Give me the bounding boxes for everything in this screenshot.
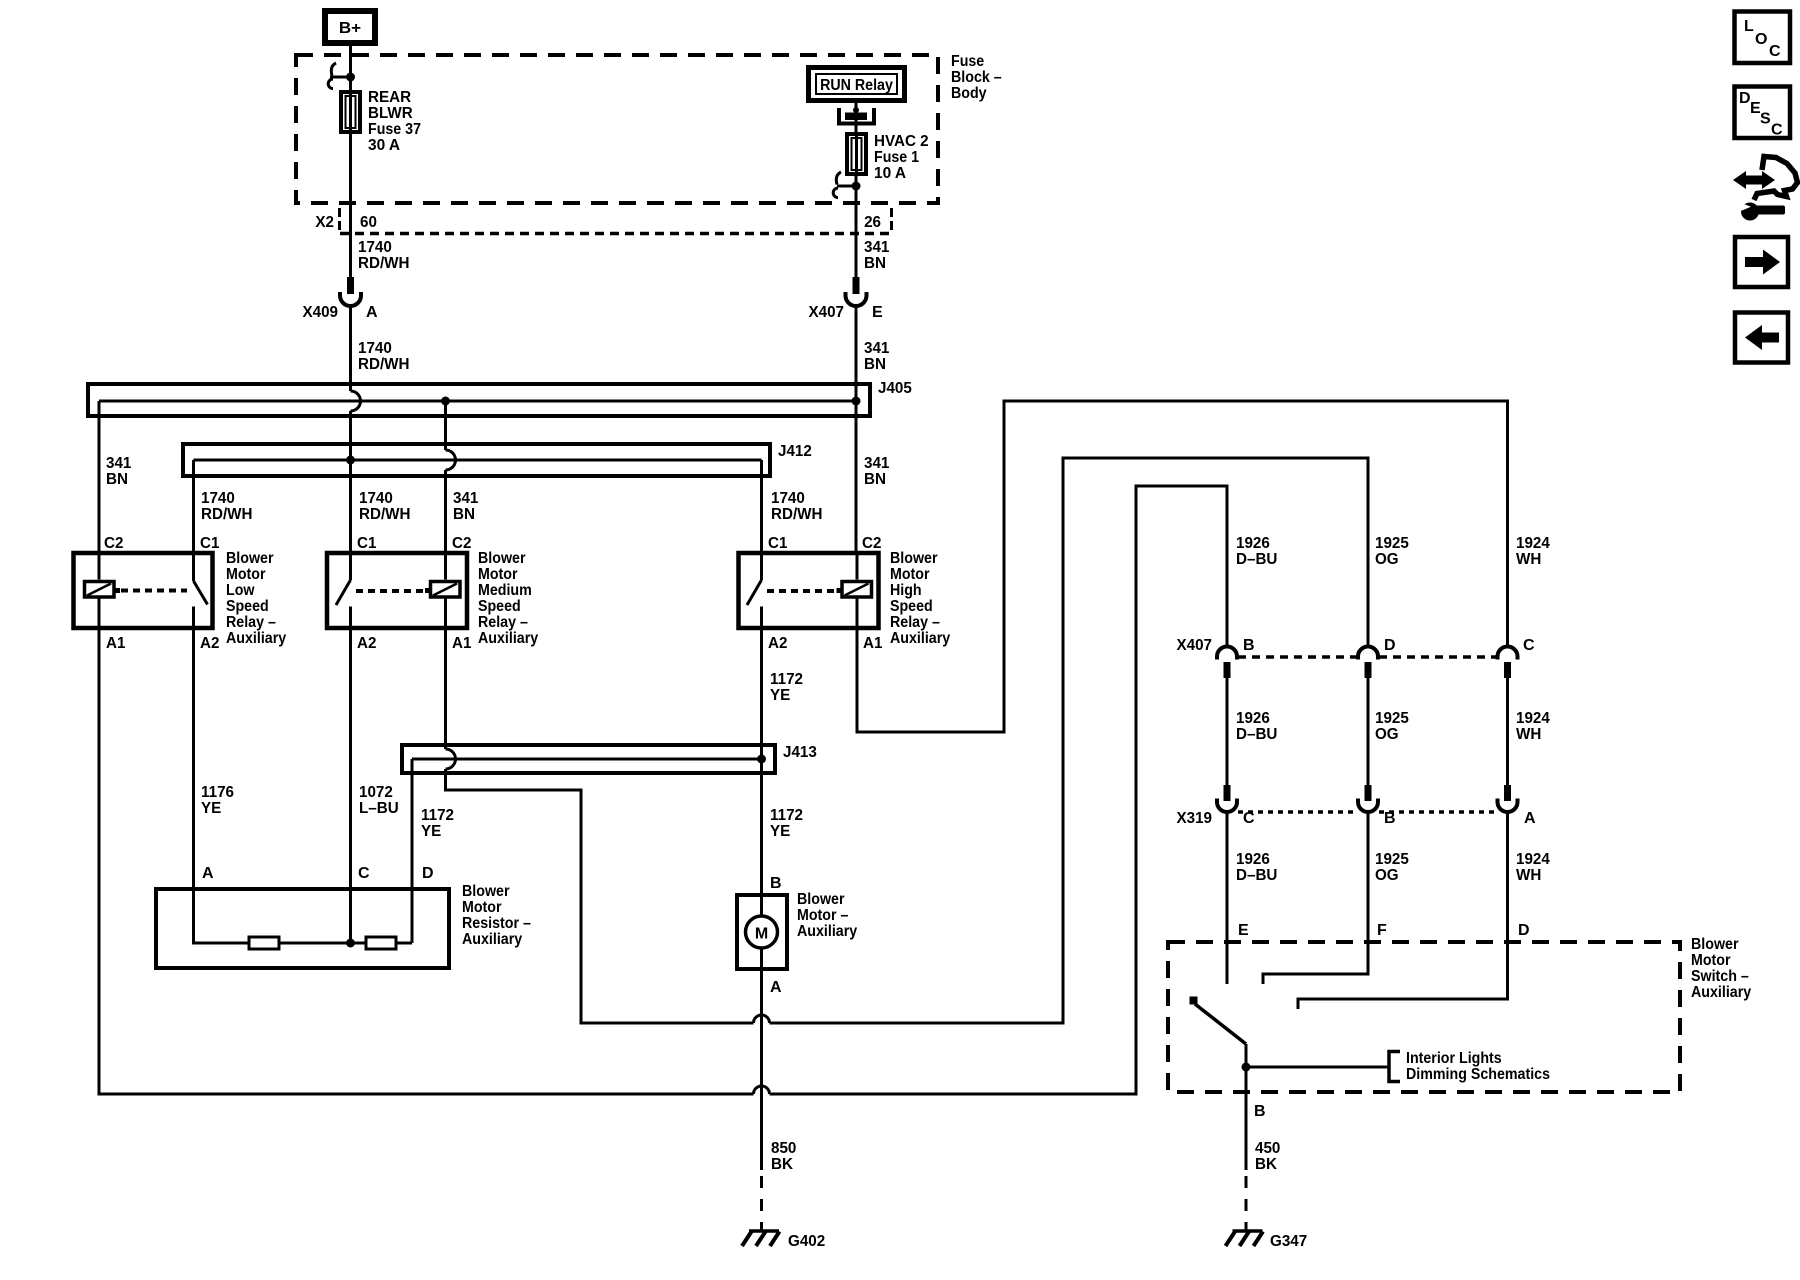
relay K3 Blower Motor High Speed Relay - Auxiliary — [739, 550, 951, 652]
wire X407-C to X319-A (1924 WH) — [1508, 678, 1550, 785]
switch wiper — [1190, 997, 1251, 1093]
wire X319-B to switch pin F (1925 OG) — [1263, 812, 1409, 984]
svg-text:1172: 1172 — [770, 807, 803, 824]
svg-text:BLWR: BLWR — [368, 105, 413, 122]
battery B+ symbol — [325, 11, 375, 43]
svg-text:RD/WH: RD/WH — [358, 255, 410, 272]
svg-text:1740: 1740 — [359, 490, 393, 507]
svg-text:Speed: Speed — [226, 598, 269, 615]
svg-text:341: 341 — [864, 455, 889, 472]
svg-text:A: A — [366, 304, 378, 321]
svg-text:Low: Low — [226, 582, 255, 599]
svg-text:341: 341 — [106, 455, 131, 472]
svg-text:1072: 1072 — [359, 784, 393, 801]
fuse F1 HVAC 2 10A — [847, 133, 929, 182]
svg-text:A2: A2 — [357, 635, 376, 652]
svg-text:Blower: Blower — [1691, 936, 1739, 953]
svg-text:A: A — [202, 865, 214, 882]
wire label 1926 D-BU (above X407) — [1236, 535, 1277, 568]
svg-text:1926: 1926 — [1236, 710, 1270, 727]
svg-text:Motor: Motor — [1691, 952, 1731, 969]
svg-text:A: A — [1524, 810, 1536, 827]
blower motor switch dashed box — [1168, 936, 1751, 1092]
svg-text:X2: X2 — [315, 214, 334, 231]
connector X409 pin A — [303, 277, 379, 321]
wire label 1740 RD/WH (below X409) — [358, 340, 410, 373]
wire J413 to resistor pin D (1172 YE) — [412, 759, 454, 943]
connector X2 pin 60 boundary — [315, 208, 892, 234]
connector X319 dotted gang lines — [1238, 810, 1496, 814]
svg-text:BN: BN — [864, 471, 886, 488]
svg-text:X409: X409 — [303, 304, 339, 321]
svg-text:Blower: Blower — [462, 883, 510, 900]
svg-text:B: B — [1243, 637, 1255, 654]
svg-text:X407: X407 — [1177, 637, 1213, 654]
svg-text:RD/WH: RD/WH — [201, 506, 253, 523]
svg-text:C2: C2 — [452, 535, 471, 552]
svg-text:C1: C1 — [357, 535, 376, 552]
svg-text:1924: 1924 — [1516, 851, 1550, 868]
svg-text:1925: 1925 — [1375, 710, 1409, 727]
svg-text:A: A — [770, 979, 782, 996]
svg-text:RD/WH: RD/WH — [771, 506, 823, 523]
wire fuse 1 to connector X407 pin E — [855, 174, 858, 277]
svg-text:High: High — [890, 582, 922, 599]
wire relay medium A1 to X407 pin D (1925 OG control), hops over J413 and motor ground wire — [446, 458, 1369, 1023]
wire relay medium A2 to resistor pin C (1072 L-BU) — [351, 628, 399, 940]
svg-text:OG: OG — [1375, 867, 1399, 884]
svg-text:341: 341 — [453, 490, 478, 507]
svg-text:1172: 1172 — [421, 807, 454, 824]
svg-text:J412: J412 — [778, 443, 812, 460]
svg-text:A1: A1 — [452, 635, 471, 652]
svg-text:Dimming Schematics: Dimming Schematics — [1406, 1066, 1550, 1083]
svg-text:Speed: Speed — [478, 598, 521, 615]
wire X407-D to X319-B (1925 OG) — [1368, 678, 1409, 785]
svg-text:Resistor –: Resistor – — [462, 915, 531, 932]
svg-text:Relay –: Relay – — [226, 614, 276, 631]
svg-text:450: 450 — [1255, 1140, 1280, 1157]
sidebar back arrow button — [1735, 313, 1788, 363]
ground G402 — [742, 1231, 825, 1250]
wire motor pin A to ground G402 (850 BK) — [762, 948, 797, 1230]
svg-text:Auxiliary: Auxiliary — [1691, 984, 1751, 1001]
svg-text:D: D — [422, 865, 434, 882]
svg-text:D: D — [1384, 637, 1396, 654]
svg-text:C: C — [1771, 122, 1783, 139]
relay K2 Blower Motor Medium Speed Relay - Auxiliary — [327, 550, 538, 652]
svg-text:WH: WH — [1516, 867, 1541, 884]
svg-text:X407: X407 — [809, 304, 845, 321]
svg-text:OG: OG — [1375, 726, 1399, 743]
svg-text:Blower: Blower — [478, 550, 526, 567]
svg-text:1924: 1924 — [1516, 535, 1550, 552]
wire relay low A1 to X407 pin B (1926 D-BU control), hops over motor ground wire — [99, 486, 1227, 1094]
svg-text:BN: BN — [864, 255, 886, 272]
svg-text:1740: 1740 — [771, 490, 805, 507]
svg-text:E: E — [872, 304, 883, 321]
relay K1 Blower Motor Low Speed Relay - Auxiliary — [74, 550, 287, 652]
svg-text:1176: 1176 — [201, 784, 234, 801]
svg-text:Motor: Motor — [890, 566, 930, 583]
svg-text:C2: C2 — [862, 535, 881, 552]
svg-text:E: E — [1238, 922, 1249, 939]
sidebar forward arrow button — [1735, 237, 1788, 287]
sidebar LOC button — [1735, 12, 1791, 64]
wire label 1740 RD/WH + pin C1 (relay medium) — [357, 490, 411, 552]
svg-text:341: 341 — [864, 239, 889, 256]
connector X319 pin C — [1177, 785, 1256, 827]
svg-text:B+: B+ — [339, 20, 361, 37]
sidebar DESC button — [1735, 87, 1791, 139]
svg-text:YE: YE — [770, 687, 791, 704]
svg-text:1925: 1925 — [1375, 535, 1409, 552]
wire label 1740 RD/WH + pin C1 (relay low) — [200, 490, 253, 552]
svg-text:J405: J405 — [878, 380, 912, 397]
svg-text:BK: BK — [1255, 1156, 1277, 1173]
svg-text:A2: A2 — [768, 635, 787, 652]
svg-text:1740: 1740 — [358, 239, 392, 256]
svg-text:G402: G402 — [788, 1233, 825, 1250]
svg-text:WH: WH — [1516, 726, 1541, 743]
wire X319-C to switch pin E (1926 D-BU) — [1227, 812, 1277, 984]
svg-text:1924: 1924 — [1516, 710, 1550, 727]
svg-text:G347: G347 — [1270, 1233, 1307, 1250]
svg-text:Fuse 37: Fuse 37 — [368, 121, 421, 138]
svg-text:HVAC 2: HVAC 2 — [874, 133, 929, 150]
connector X407 pin D — [1358, 637, 1396, 678]
fuse F37 REAR BLWR 30A — [341, 89, 421, 154]
svg-text:C: C — [1769, 43, 1781, 60]
svg-text:J413: J413 — [783, 744, 817, 761]
svg-text:Auxiliary: Auxiliary — [890, 630, 950, 647]
connector X407 pin E — [809, 277, 884, 321]
svg-text:C2: C2 — [104, 535, 123, 552]
svg-text:Switch –: Switch – — [1691, 968, 1749, 985]
svg-text:1926: 1926 — [1236, 535, 1270, 552]
wire switch pin B to ground G347 (450 BK) — [1246, 1092, 1280, 1230]
blower motor - auxiliary — [737, 891, 857, 996]
svg-text:10 A: 10 A — [874, 165, 907, 182]
svg-text:Auxiliary: Auxiliary — [478, 630, 538, 647]
svg-text:C: C — [1523, 637, 1535, 654]
wire label 1740 RD/WH (above X409) — [358, 239, 410, 272]
splice pack J413 — [402, 744, 817, 773]
svg-text:A2: A2 — [200, 635, 219, 652]
RUN relay output terminal bracket — [839, 101, 874, 133]
svg-text:M: M — [755, 926, 768, 943]
svg-text:Fuse 1: Fuse 1 — [874, 149, 919, 166]
wire X407-B to X319-C (1926 D-BU) — [1227, 678, 1277, 785]
connector X319 pin A — [1498, 785, 1537, 827]
svg-text:RD/WH: RD/WH — [358, 356, 410, 373]
svg-text:Motor: Motor — [478, 566, 518, 583]
svg-text:Body: Body — [951, 85, 987, 102]
wire relay high A2 to J413 to blower motor pin B (1172 YE) — [757, 628, 803, 916]
svg-text:C: C — [358, 865, 370, 882]
svg-text:Block –: Block – — [951, 69, 1002, 86]
fuse clip / junction at fuse 1 output — [833, 172, 860, 198]
svg-text:Motor: Motor — [462, 899, 502, 916]
svg-text:Auxiliary: Auxiliary — [462, 931, 522, 948]
svg-text:26: 26 — [864, 214, 881, 231]
wire label 1924 WH (above X407) — [1516, 535, 1550, 568]
svg-text:L: L — [1744, 18, 1754, 35]
svg-text:Blower: Blower — [226, 550, 274, 567]
svg-text:Blower: Blower — [890, 550, 938, 567]
svg-text:1925: 1925 — [1375, 851, 1409, 868]
svg-text:YE: YE — [201, 800, 222, 817]
svg-text:A1: A1 — [863, 635, 882, 652]
svg-text:1926: 1926 — [1236, 851, 1270, 868]
svg-text:D–BU: D–BU — [1236, 726, 1277, 743]
svg-text:1740: 1740 — [358, 340, 392, 357]
svg-text:Relay –: Relay – — [890, 614, 940, 631]
resistor element R1 — [249, 937, 279, 949]
svg-text:Fuse: Fuse — [951, 53, 984, 70]
svg-text:YE: YE — [421, 823, 442, 840]
wire label 341 BN (left branch of J405) — [104, 455, 131, 552]
svg-text:BN: BN — [106, 471, 128, 488]
splice pack J412 — [183, 443, 812, 553]
svg-text:BN: BN — [864, 356, 886, 373]
wire X407-E to J405 to relay high C2 (341 BN) — [852, 306, 861, 554]
svg-text:Speed: Speed — [890, 598, 933, 615]
svg-text:B: B — [1254, 1103, 1266, 1120]
svg-text:RD/WH: RD/WH — [359, 506, 411, 523]
svg-text:D–BU: D–BU — [1236, 551, 1277, 568]
blower motor resistor box — [156, 883, 531, 968]
wire X319-A to switch pin D (1924 WH) — [1298, 812, 1550, 1009]
connector X319 pin B — [1358, 785, 1396, 827]
svg-text:60: 60 — [360, 214, 377, 231]
svg-text:RUN Relay: RUN Relay — [820, 77, 893, 94]
wire to interior lights dimming schematics — [1246, 1050, 1550, 1083]
splice pack J405 — [88, 380, 912, 553]
svg-text:X319: X319 — [1177, 810, 1213, 827]
svg-text:F: F — [1377, 922, 1387, 939]
svg-text:1172: 1172 — [770, 671, 803, 688]
resistor element R2 — [366, 937, 396, 949]
wire X409 to J412 to relay C1 (1740 RD/WH), hops over J405 bus — [351, 306, 361, 554]
svg-text:WH: WH — [1516, 551, 1541, 568]
wire J405 to relay medium C2 (341 BN), hops over J412 — [446, 401, 479, 553]
svg-text:1740: 1740 — [201, 490, 235, 507]
fuse block body dashed box — [296, 55, 938, 203]
connector X407 pin C — [1498, 637, 1536, 678]
svg-text:D: D — [1739, 90, 1751, 107]
label Fuse Block - Body — [951, 53, 1002, 102]
svg-text:Auxiliary: Auxiliary — [797, 923, 857, 940]
svg-text:O: O — [1755, 31, 1767, 48]
wire label 341 BN (above X407) — [864, 239, 889, 272]
svg-text:REAR: REAR — [368, 89, 412, 106]
connector X407 dashed gang lines — [1238, 655, 1496, 659]
svg-text:S: S — [1760, 111, 1771, 128]
sidebar schematic navigation icon — [1733, 157, 1798, 221]
wire label 341 BN (below X407) — [864, 340, 889, 373]
wire label 1740 RD/WH + pin C1 (relay high) — [768, 490, 823, 552]
svg-text:Auxiliary: Auxiliary — [226, 630, 286, 647]
svg-text:B: B — [770, 875, 782, 892]
wire label 341 BN + pin C2 (relay high) — [862, 455, 889, 552]
wire label 1925 OG (above X407) — [1375, 535, 1409, 568]
svg-text:Motor: Motor — [226, 566, 266, 583]
svg-text:D: D — [1518, 922, 1530, 939]
svg-text:Medium: Medium — [478, 582, 532, 599]
svg-text:Blower: Blower — [797, 891, 845, 908]
svg-text:Motor –: Motor – — [797, 907, 848, 924]
svg-text:341: 341 — [864, 340, 889, 357]
connector X407 pin B — [1177, 637, 1255, 678]
wire relay low A2 to resistor pin A (1176 YE) — [194, 628, 235, 943]
ground G347 — [1226, 1231, 1308, 1250]
wire relay high A1 to X407 pin C (1924 WH control) — [857, 401, 1508, 732]
svg-text:OG: OG — [1375, 551, 1399, 568]
svg-text:A1: A1 — [106, 635, 125, 652]
svg-text:Interior Lights: Interior Lights — [1406, 1050, 1502, 1067]
svg-text:C1: C1 — [768, 535, 787, 552]
RUN Relay box — [809, 68, 905, 101]
svg-text:Relay –: Relay – — [478, 614, 528, 631]
svg-text:L–BU: L–BU — [359, 800, 399, 817]
wire B+ to fuse 37 to connector X409 — [349, 46, 352, 277]
svg-text:YE: YE — [770, 823, 791, 840]
svg-text:D–BU: D–BU — [1236, 867, 1277, 884]
svg-text:BK: BK — [771, 1156, 793, 1173]
svg-text:C1: C1 — [200, 535, 219, 552]
fuse clip / junction at fuse 37 input — [328, 63, 355, 89]
svg-text:850: 850 — [771, 1140, 796, 1157]
svg-text:30 A: 30 A — [368, 137, 401, 154]
svg-text:BN: BN — [453, 506, 475, 523]
